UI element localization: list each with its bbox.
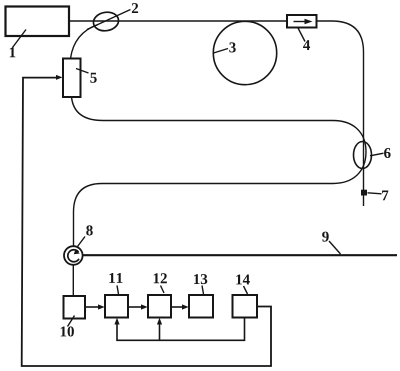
- label 1: [10, 30, 26, 58]
- coupler ellipse 2: [92, 10, 120, 32]
- label 13: [194, 274, 207, 294]
- wire: inner feedback from box 14 bottom to boxes 11 and 12: [117, 318, 245, 341]
- isolator box 4 with arrow: [287, 15, 317, 28]
- ellipse 6 (polarization controller): [354, 142, 372, 169]
- box 10: [64, 296, 86, 319]
- box 1: [6, 7, 70, 37]
- wire 9: output line: [83, 254, 397, 256]
- label 12: [154, 273, 167, 293]
- wire: fiber from box 5 bottom, across right, U-turn, back left and down to loop 8: [72, 97, 367, 246]
- box 14: [233, 295, 258, 318]
- arrow 10 to 11: [85, 304, 105, 309]
- arrow 11 to 12: [128, 304, 148, 309]
- fiber coil circle 3: [213, 21, 276, 84]
- box 11: [105, 295, 128, 318]
- label 4: [298, 28, 310, 50]
- square 7 (detector point): [361, 190, 367, 196]
- arrow into box 5: [56, 75, 63, 80]
- wire: outer feedback from box 14 right, around bottom and left, into box 5: [22, 78, 271, 366]
- label 6: [370, 148, 391, 158]
- label 7: [368, 190, 389, 200]
- box 12: [148, 295, 171, 318]
- wire: branch up into box 12: [159, 323, 161, 340]
- label 9: [322, 232, 340, 254]
- label 2: [87, 3, 138, 29]
- modulator box 5: [63, 59, 81, 98]
- label 5: [76, 69, 97, 83]
- wire: main fiber top line with right corner down: [69, 21, 364, 206]
- label 10: [61, 316, 75, 337]
- arrow 12 to 13: [171, 304, 189, 309]
- wire: branch from coupler 2 down to modulator 5: [71, 25, 99, 59]
- fiber loop 8: [64, 246, 83, 265]
- label 8: [78, 225, 93, 246]
- box 13: [189, 295, 213, 318]
- arrow up into box 11: [114, 318, 119, 325]
- wire: loop 8 down to box 10: [72, 265, 74, 296]
- label 14: [236, 274, 250, 294]
- label 3: [214, 42, 236, 53]
- label 11: [109, 273, 122, 294]
- arrow up into box 12: [157, 318, 162, 325]
